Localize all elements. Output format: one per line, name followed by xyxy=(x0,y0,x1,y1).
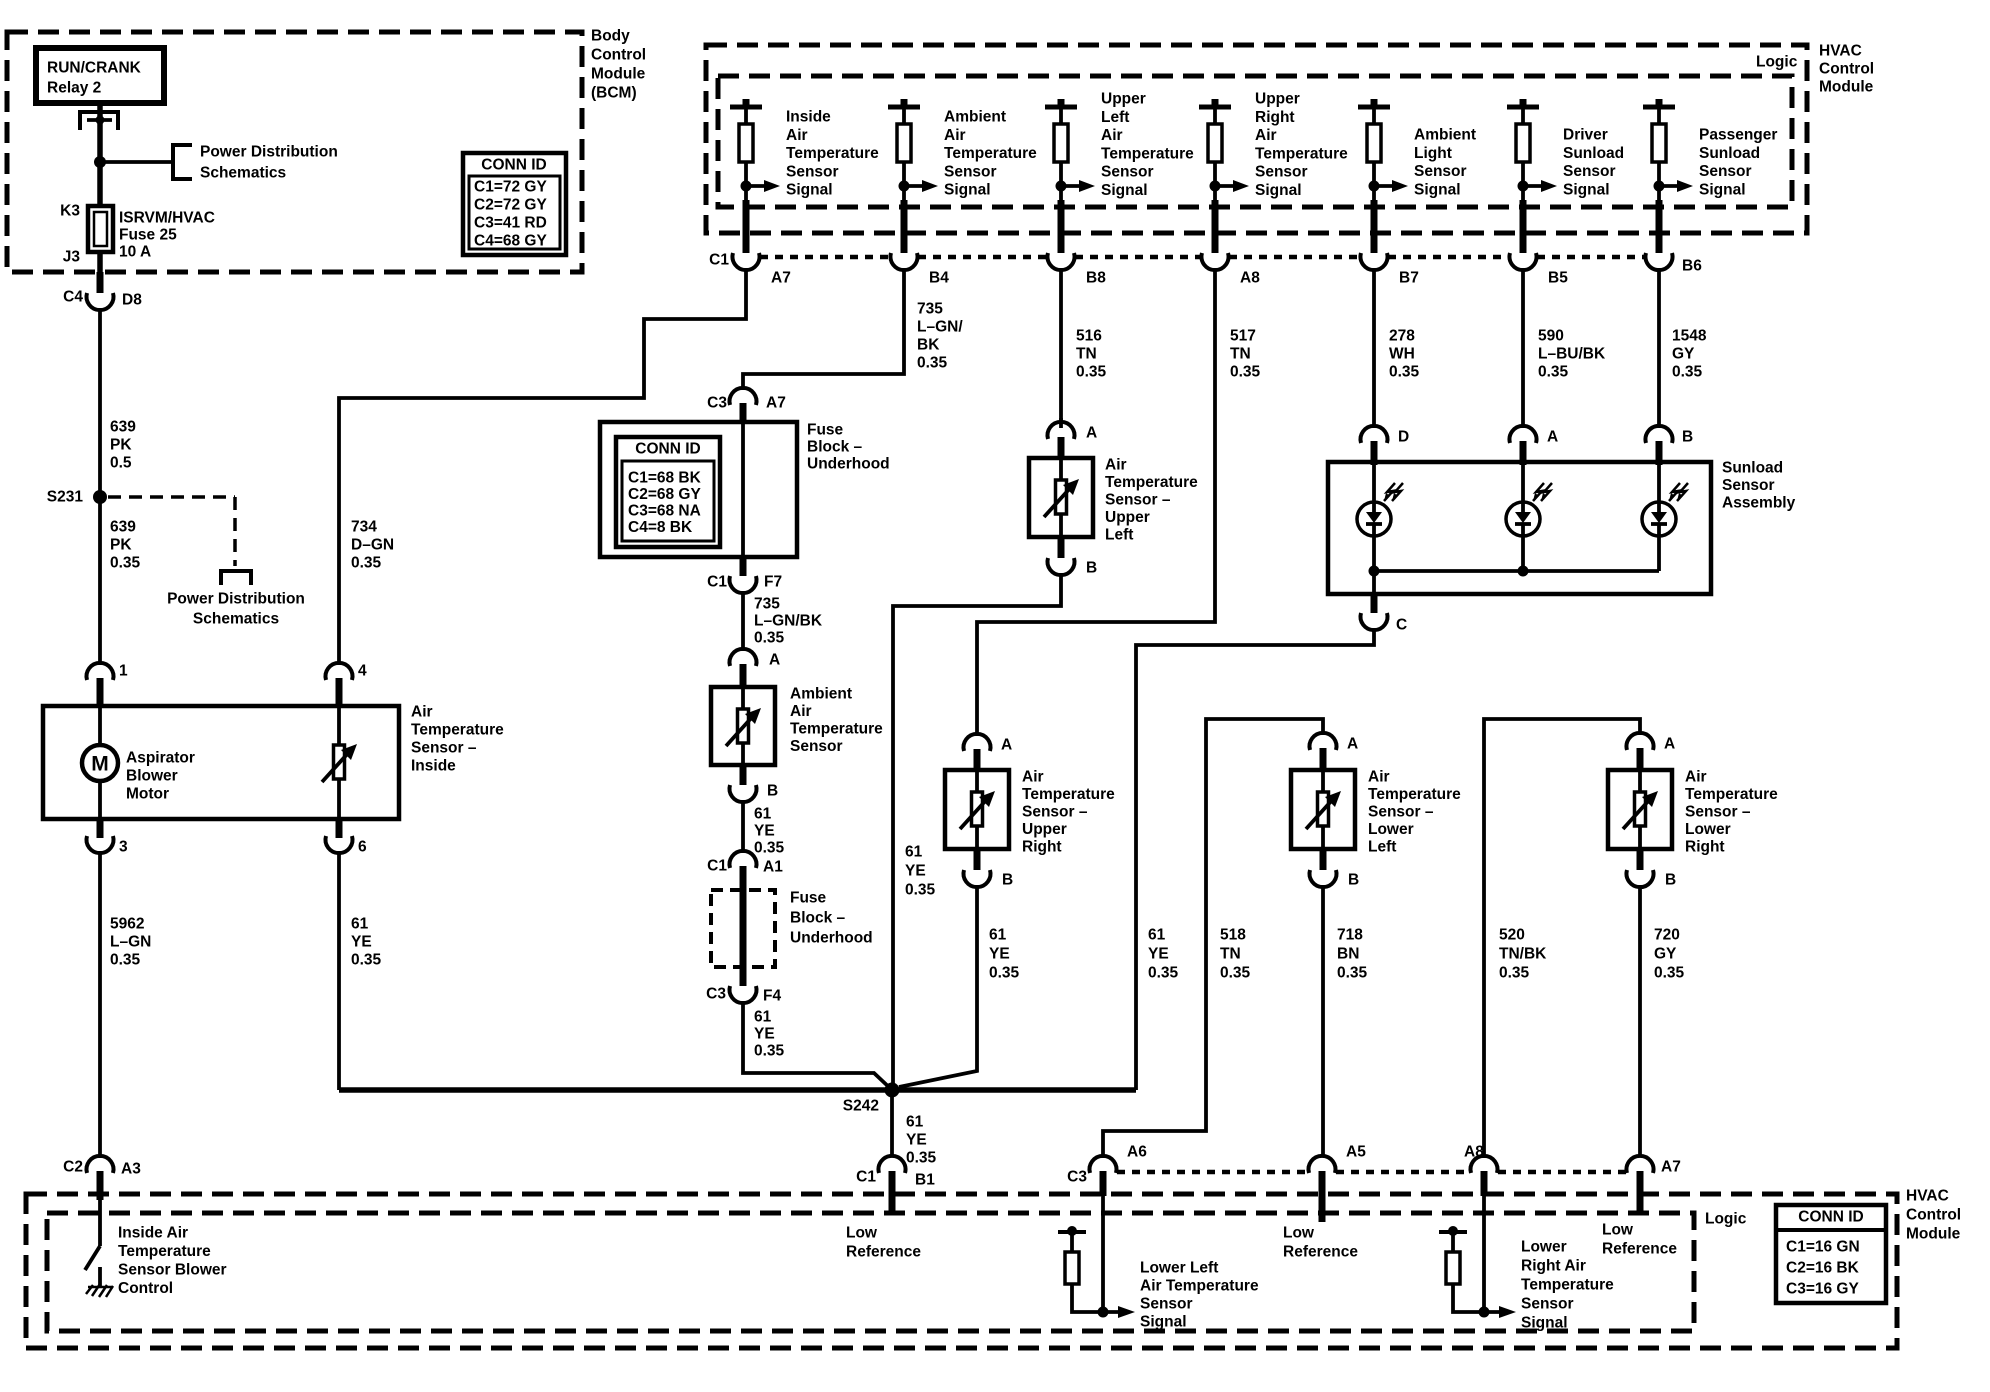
svg-text:0.35: 0.35 xyxy=(905,882,936,899)
svg-text:Light: Light xyxy=(1414,145,1452,162)
connector pin A7 (HVAC C1) xyxy=(733,253,760,270)
svg-text:1: 1 xyxy=(119,663,128,680)
Air Temperature Sensor - Lower Right box xyxy=(1608,769,1778,856)
svg-text:Sensor Blower: Sensor Blower xyxy=(118,1262,227,1279)
connector B (sunload sensor assembly) xyxy=(1645,426,1672,443)
svg-text:C1=72 GY: C1=72 GY xyxy=(474,179,547,196)
svg-text:Aspirator: Aspirator xyxy=(126,750,195,767)
svg-text:0.35: 0.35 xyxy=(351,952,382,969)
wire 61 YE S242 to C1/B1 xyxy=(892,1090,937,1167)
svg-text:Sensor: Sensor xyxy=(786,163,839,180)
connector A8 (HVAC control module) xyxy=(1471,1156,1498,1173)
svg-text:Signal: Signal xyxy=(1101,182,1148,199)
svg-text:0.35: 0.35 xyxy=(351,555,382,572)
label Air Temperature Sensor - Inside xyxy=(411,704,504,775)
wire 639 PK 0.5 xyxy=(100,308,136,492)
svg-text:PK: PK xyxy=(110,537,132,554)
HVAC Control Module outer dashed box (bottom) xyxy=(26,1188,1961,1349)
svg-text:Lower Left: Lower Left xyxy=(1140,1260,1218,1277)
svg-text:518: 518 xyxy=(1220,927,1246,944)
pin label D xyxy=(1398,429,1409,446)
pin label B8 xyxy=(1086,270,1106,287)
svg-text:C2=68 GY: C2=68 GY xyxy=(628,486,701,503)
stub C2/A3 into module xyxy=(97,1171,104,1200)
svg-text:Sensor –: Sensor – xyxy=(1022,804,1088,821)
svg-text:C2: C2 xyxy=(63,1159,83,1176)
connector C3/F4 (fuse block underhood) xyxy=(730,986,757,1003)
svg-text:B1: B1 xyxy=(915,1172,935,1189)
svg-text:0.35: 0.35 xyxy=(1654,965,1685,982)
svg-text:0.5: 0.5 xyxy=(110,455,132,472)
wire 278 WH from B7 to sunload D xyxy=(1372,268,1376,428)
svg-text:Temperature: Temperature xyxy=(1521,1277,1614,1294)
motor M symbol xyxy=(82,706,118,819)
svg-text:Upper: Upper xyxy=(1255,91,1300,108)
pin label B (lower left) xyxy=(1348,872,1359,889)
svg-text:Control: Control xyxy=(118,1280,173,1297)
wire 61 YE upper-right B down to S242 xyxy=(899,885,1020,1087)
pin labels C1 A1 xyxy=(707,858,783,876)
wire A6 to sense junction xyxy=(1100,1171,1107,1312)
stub A5 into module (low reference) xyxy=(1319,1171,1326,1222)
pin label A (sunload) xyxy=(1547,429,1558,446)
svg-text:3: 3 xyxy=(119,839,128,856)
Fuse Block - Underhood dashed box xyxy=(711,890,873,968)
connector B (air temperature sensor upper left) xyxy=(1047,558,1074,575)
wires to photodiodes xyxy=(1374,462,1659,502)
pin labels C4 D8 xyxy=(63,289,142,309)
svg-text:Air: Air xyxy=(790,703,812,720)
svg-text:Temperature: Temperature xyxy=(118,1243,211,1260)
connector C1/F7 (fuse block underhood) xyxy=(730,576,757,593)
pin 3 stub xyxy=(97,819,104,838)
stub B1 into module (low reference) xyxy=(889,1171,896,1214)
connector A (ambient air temperature sensor) xyxy=(730,649,757,666)
connector B (air temperature sensor upper right) xyxy=(964,870,991,887)
svg-text:Power Distribution: Power Distribution xyxy=(167,591,305,608)
svg-text:D8: D8 xyxy=(122,292,142,309)
svg-text:Reference: Reference xyxy=(1602,1241,1677,1258)
svg-text:WH: WH xyxy=(1389,346,1415,363)
svg-text:Upper: Upper xyxy=(1105,509,1150,526)
label Low Reference (A5) xyxy=(1283,1225,1358,1261)
svg-text:C3: C3 xyxy=(706,986,726,1003)
wire through dashed fuse block xyxy=(740,866,747,986)
svg-text:Signal: Signal xyxy=(1255,182,1302,199)
svg-text:A: A xyxy=(769,652,780,669)
svg-text:Air: Air xyxy=(1022,769,1044,786)
svg-text:F7: F7 xyxy=(764,574,782,591)
svg-text:C1=16 GN: C1=16 GN xyxy=(1786,1239,1860,1256)
svg-text:61: 61 xyxy=(1148,927,1166,944)
svg-text:Air: Air xyxy=(786,127,808,144)
ground (chassis) xyxy=(86,1284,113,1297)
sensor internal wires (upper right) xyxy=(975,770,979,849)
svg-text:B7: B7 xyxy=(1399,270,1419,287)
stub out of lower-right sensor xyxy=(1637,849,1644,870)
Air Temperature Sensor - Lower Left box xyxy=(1291,769,1461,856)
pull-up resistor (lower right signal) xyxy=(1439,1226,1479,1312)
pin labels C1 F7 xyxy=(707,574,782,591)
svg-text:Control: Control xyxy=(1906,1207,1961,1224)
pin label A (upper right) xyxy=(1001,737,1012,754)
splice S231 xyxy=(47,489,107,506)
svg-text:YE: YE xyxy=(989,946,1010,963)
svg-text:C3: C3 xyxy=(1067,1169,1087,1186)
svg-text:A6: A6 xyxy=(1127,1144,1147,1161)
stub out of lower-left sensor xyxy=(1320,849,1327,870)
wire 61 YE sunload C to S242 bus xyxy=(1136,628,1374,1090)
svg-text:10 A: 10 A xyxy=(119,244,151,261)
pin label B (upper left) xyxy=(1086,560,1097,577)
svg-text:Ambient: Ambient xyxy=(790,686,852,703)
stub out of sunload box to C xyxy=(1372,571,1376,613)
svg-text:BN: BN xyxy=(1337,946,1359,963)
svg-text:Temperature: Temperature xyxy=(1255,145,1348,162)
svg-text:C1: C1 xyxy=(707,858,727,875)
connector pin B7 (HVAC C1) xyxy=(1361,253,1388,270)
svg-text:A7: A7 xyxy=(766,395,786,412)
pin label B (sunload) xyxy=(1682,429,1693,446)
svg-text:Signal: Signal xyxy=(1414,181,1461,198)
svg-text:Right: Right xyxy=(1685,839,1725,856)
svg-text:A1: A1 xyxy=(763,859,783,876)
wire to Power Distribution bracket xyxy=(100,160,173,164)
pin label B6 xyxy=(1682,258,1702,275)
svg-text:B: B xyxy=(1682,429,1693,446)
svg-text:D–GN: D–GN xyxy=(351,537,394,554)
svg-text:Upper: Upper xyxy=(1022,821,1067,838)
wire junction to fuse xyxy=(97,162,103,206)
pin label B4 xyxy=(929,270,949,287)
wire 720 GY lower-right B down to A7 xyxy=(1640,885,1685,1157)
pin label C xyxy=(1396,617,1407,634)
stub A7 into module (low reference) xyxy=(1637,1171,1644,1214)
wire 517 TN label xyxy=(1230,328,1261,381)
svg-text:Sensor: Sensor xyxy=(1140,1296,1193,1313)
connector B (air temperature sensor lower right) xyxy=(1627,870,1654,887)
svg-text:CONN ID: CONN ID xyxy=(481,157,546,174)
svg-text:Sensor –: Sensor – xyxy=(1685,804,1751,821)
wire 517 TN from A8 to upper-right sensor xyxy=(977,268,1215,736)
svg-text:Sensor: Sensor xyxy=(1563,163,1616,180)
svg-text:A: A xyxy=(1347,736,1358,753)
svg-text:Module: Module xyxy=(1906,1226,1961,1243)
svg-text:TN: TN xyxy=(1076,346,1097,363)
pin labels C2 A3 xyxy=(63,1159,141,1178)
svg-text:Sunload: Sunload xyxy=(1699,145,1760,162)
svg-text:C: C xyxy=(1396,617,1407,634)
wire fuse to connector C4 xyxy=(97,252,103,293)
svg-text:520: 520 xyxy=(1499,927,1525,944)
wire 520 TN/BK from HVAC A8 up to lower-right sensor xyxy=(1484,719,1640,1158)
svg-text:Temperature: Temperature xyxy=(790,721,883,738)
sensor signal input circuit B7 xyxy=(1358,99,1476,253)
svg-text:639: 639 xyxy=(110,419,136,436)
svg-text:Temperature: Temperature xyxy=(1685,786,1778,803)
connector pin B6 (HVAC C1) xyxy=(1646,253,1673,270)
svg-text:Signal: Signal xyxy=(1699,181,1746,198)
svg-text:S242: S242 xyxy=(843,1098,879,1115)
svg-text:61: 61 xyxy=(906,1114,924,1131)
svg-text:Temperature: Temperature xyxy=(944,145,1037,162)
pin label A5 xyxy=(1346,1144,1366,1161)
svg-text:L–BU/BK: L–BU/BK xyxy=(1538,346,1606,363)
pin 1 stub xyxy=(97,678,104,706)
connector A5 (HVAC control module) xyxy=(1309,1156,1336,1173)
svg-text:735: 735 xyxy=(754,596,780,613)
thermistor symbol (lower left sensor) xyxy=(1306,791,1341,829)
svg-text:A8: A8 xyxy=(1464,1144,1484,1161)
connector A (sunload sensor assembly) xyxy=(1510,426,1537,443)
sensor signal input circuit A8 xyxy=(1199,91,1348,254)
relay contact symbol xyxy=(80,112,118,130)
connector pin B8 (HVAC C1) xyxy=(1048,253,1075,270)
connector pin 4 of blower motor xyxy=(326,663,353,680)
stub into upper-left sensor xyxy=(1058,437,1065,458)
svg-text:C3=41 RD: C3=41 RD xyxy=(474,215,547,232)
svg-text:C1: C1 xyxy=(856,1169,876,1186)
connector D (sunload sensor assembly) xyxy=(1361,426,1388,443)
label Lower Left Air Temperature Sensor Signal xyxy=(1140,1260,1259,1331)
svg-text:Sensor: Sensor xyxy=(944,163,997,180)
svg-text:Fuse: Fuse xyxy=(790,890,827,907)
Logic dashed box (bottom) xyxy=(47,1211,1747,1332)
pin label 4 xyxy=(358,663,367,680)
svg-text:0.35: 0.35 xyxy=(1220,965,1251,982)
thermistor symbol (ambient air temperature sensor) xyxy=(726,708,761,746)
dashed branch to Power Distribution Schematics xyxy=(108,497,305,628)
connector label C1 (top module) xyxy=(709,252,729,269)
svg-text:720: 720 xyxy=(1654,927,1680,944)
wire 516 TN label xyxy=(1076,328,1107,381)
CONN ID table (BCM) xyxy=(463,153,566,255)
svg-text:YE: YE xyxy=(754,823,775,840)
svg-text:YE: YE xyxy=(905,863,926,880)
svg-text:Schematics: Schematics xyxy=(200,165,286,182)
svg-text:Temperature: Temperature xyxy=(1101,145,1194,162)
svg-text:0.35: 0.35 xyxy=(1672,364,1703,381)
svg-text:YE: YE xyxy=(351,934,372,951)
svg-text:Sensor: Sensor xyxy=(1521,1296,1574,1313)
thermistor symbol (upper right sensor) xyxy=(960,791,995,829)
wire 518 TN from HVAC C3/A6 up to lower-left sensor xyxy=(1103,719,1323,1158)
svg-text:Relay 2: Relay 2 xyxy=(47,80,101,97)
wire B4 to fuse block C3/A7 xyxy=(743,268,904,390)
wire A8 to sense junction xyxy=(1481,1171,1488,1312)
svg-text:Fuse 25: Fuse 25 xyxy=(119,227,177,244)
sensor signal input circuit B4 xyxy=(888,99,1037,253)
svg-text:A: A xyxy=(1086,425,1097,442)
svg-text:Fuse: Fuse xyxy=(807,422,844,439)
svg-text:Assembly: Assembly xyxy=(1722,495,1796,512)
svg-text:C1=68 BK: C1=68 BK xyxy=(628,470,702,487)
connector A (air temperature sensor upper right) xyxy=(964,734,991,751)
stub into lower-right sensor xyxy=(1637,748,1644,770)
wire through fuse block xyxy=(741,422,745,557)
internal common bus of sunload assembly xyxy=(1369,536,1660,577)
svg-text:Upper: Upper xyxy=(1101,91,1146,108)
svg-text:Underhood: Underhood xyxy=(790,930,873,947)
pin label A xyxy=(769,652,780,669)
svg-text:B: B xyxy=(767,783,778,800)
stub into lower-left sensor xyxy=(1320,748,1327,770)
svg-text:Air: Air xyxy=(1685,769,1707,786)
svg-text:Low: Low xyxy=(1602,1222,1634,1239)
svg-text:0.35: 0.35 xyxy=(1389,364,1420,381)
Aspirator Blower Motor box xyxy=(43,706,399,819)
svg-text:Sunload: Sunload xyxy=(1563,145,1624,162)
wire 5962 L-GN 0.35 xyxy=(100,851,151,1158)
photodiode (ambient light) xyxy=(1506,483,1552,536)
node junction to Power Distribution xyxy=(94,156,106,168)
svg-text:B: B xyxy=(1086,560,1097,577)
stub into ambient sensor xyxy=(740,664,747,687)
stub out of ambient sensor xyxy=(740,765,747,785)
svg-text:Temperature: Temperature xyxy=(786,145,879,162)
svg-text:Signal: Signal xyxy=(1521,1315,1568,1332)
relay RUN/CRANK Relay 2 xyxy=(36,48,164,103)
wire 735 L-GN/BK label (B4) xyxy=(917,301,963,372)
HVAC Control Module outer dashed box (top) xyxy=(706,43,1874,234)
connector pin 6 of blower motor xyxy=(326,836,353,853)
svg-text:RUN/CRANK: RUN/CRANK xyxy=(47,60,142,77)
dotted connector row (bottom module) xyxy=(1117,1170,1626,1175)
svg-text:Control: Control xyxy=(1819,61,1874,78)
svg-text:HVAC: HVAC xyxy=(1819,43,1862,60)
label Inside Air Temperature Sensor Blower Control xyxy=(118,1225,227,1298)
wire 516 TN from B8 to upper-left sensor xyxy=(1059,268,1063,428)
wire 61 YE 0.35 from pin 6 xyxy=(339,851,382,1090)
pin label A8 xyxy=(1240,270,1260,287)
svg-text:Air: Air xyxy=(1368,769,1390,786)
svg-text:TN: TN xyxy=(1220,946,1241,963)
pin label A8 (bottom) xyxy=(1464,1144,1484,1161)
wire 639 PK 0.35 xyxy=(100,497,141,665)
svg-text:C1: C1 xyxy=(709,252,729,269)
svg-text:TN: TN xyxy=(1230,346,1251,363)
sensor internal wires (upper left) xyxy=(1059,458,1063,537)
svg-text:C3: C3 xyxy=(707,395,727,412)
svg-text:YE: YE xyxy=(906,1132,927,1149)
connector C1/B1 (HVAC control module) xyxy=(879,1156,906,1173)
Air Temperature Sensor - Upper Right box xyxy=(945,769,1115,856)
svg-text:CONN ID: CONN ID xyxy=(635,441,700,458)
stubs into sunload box xyxy=(1374,441,1659,465)
svg-text:C3=16 GY: C3=16 GY xyxy=(1786,1281,1859,1298)
svg-text:Left: Left xyxy=(1105,527,1133,544)
svg-text:Sunload: Sunload xyxy=(1722,460,1783,477)
wire relay to junction xyxy=(97,103,103,163)
svg-text:CONN ID: CONN ID xyxy=(1798,1209,1863,1226)
label Low Reference (B1) xyxy=(846,1225,921,1261)
svg-text:Sensor –: Sensor – xyxy=(1368,804,1434,821)
svg-text:Signal: Signal xyxy=(1140,1314,1187,1331)
svg-text:A8: A8 xyxy=(1240,270,1260,287)
svg-text:ISRVM/HVAC: ISRVM/HVAC xyxy=(119,210,215,227)
connector pin A8 (HVAC C1) xyxy=(1202,253,1229,270)
wire 61 YE 0.35 (fuse block to S242) xyxy=(743,1001,891,1089)
svg-text:1548: 1548 xyxy=(1672,328,1707,345)
pin labels C3 A6 xyxy=(1067,1144,1147,1186)
connector C2/A3 (HVAC control module) xyxy=(87,1156,114,1173)
sensor internal wires (lower right) xyxy=(1638,770,1642,849)
svg-text:Sensor: Sensor xyxy=(790,738,843,755)
node + arrow lower left signal xyxy=(1098,1306,1136,1318)
svg-text:6: 6 xyxy=(358,839,367,856)
svg-text:A3: A3 xyxy=(121,1161,141,1178)
Fuse Block - Underhood box xyxy=(600,422,890,558)
svg-text:S231: S231 xyxy=(47,489,84,506)
svg-text:0.35: 0.35 xyxy=(1538,364,1569,381)
pin label A (lower right) xyxy=(1664,736,1675,753)
node + arrow lower right signal xyxy=(1479,1306,1517,1318)
pin label 1 xyxy=(119,663,128,680)
svg-text:Lower: Lower xyxy=(1685,821,1731,838)
connector C1/A1 (fuse block underhood) xyxy=(730,851,757,868)
svg-text:B: B xyxy=(1665,872,1676,889)
svg-text:735: 735 xyxy=(917,301,943,318)
wire 278 WH label xyxy=(1389,328,1420,381)
svg-text:Sensor: Sensor xyxy=(1255,164,1308,181)
connector C3/A7 (fuse block underhood) xyxy=(730,388,757,405)
svg-text:61: 61 xyxy=(905,844,923,861)
svg-text:Signal: Signal xyxy=(944,182,991,199)
svg-text:Sensor: Sensor xyxy=(1101,164,1154,181)
air temperature sensor - inside (variable resistor) xyxy=(337,706,341,819)
svg-text:Sensor –: Sensor – xyxy=(411,740,477,757)
svg-text:0.35: 0.35 xyxy=(1499,965,1530,982)
pin label B7 xyxy=(1399,270,1419,287)
svg-text:Reference: Reference xyxy=(846,1244,921,1261)
pull-up resistor (lower left signal) xyxy=(1058,1226,1098,1312)
connector C3/A6 (HVAC control module) xyxy=(1090,1156,1117,1173)
svg-text:0.35: 0.35 xyxy=(754,840,785,857)
svg-text:C4: C4 xyxy=(63,289,83,306)
svg-text:Module: Module xyxy=(1819,79,1874,96)
connector B (ambient air temperature sensor) xyxy=(730,785,757,802)
svg-text:HVAC: HVAC xyxy=(1906,1188,1949,1205)
Sunload Sensor Assembly box xyxy=(1328,460,1796,595)
low reference bus wire 61 YE xyxy=(339,1087,1136,1093)
connector pin B4 (HVAC C1) xyxy=(891,253,918,270)
connector A (air temperature sensor lower right) xyxy=(1627,733,1654,750)
svg-text:Sensor: Sensor xyxy=(1722,477,1775,494)
svg-text:0.35: 0.35 xyxy=(1076,364,1107,381)
svg-text:Logic: Logic xyxy=(1756,54,1798,71)
Air Temperature Sensor - Upper Left box xyxy=(1029,457,1198,544)
svg-text:C4=68 GY: C4=68 GY xyxy=(474,233,547,250)
svg-text:Body: Body xyxy=(591,28,630,45)
svg-text:BK: BK xyxy=(917,337,940,354)
svg-text:L–GN/: L–GN/ xyxy=(917,319,963,336)
connector C (sunload sensor assembly) xyxy=(1361,613,1388,630)
svg-text:A: A xyxy=(1547,429,1558,446)
svg-text:Module: Module xyxy=(591,66,646,83)
svg-text:C1: C1 xyxy=(707,574,727,591)
svg-text:Left: Left xyxy=(1101,109,1129,126)
svg-text:61: 61 xyxy=(754,1009,772,1026)
wire 718 BN lower-left B down to A5 xyxy=(1323,885,1368,1157)
svg-text:M: M xyxy=(91,753,109,776)
thermistor symbol (lower right sensor) xyxy=(1623,791,1658,829)
stub fuse block to C1/F7 xyxy=(740,557,747,576)
pin label A7 xyxy=(771,270,791,287)
svg-text:0.35: 0.35 xyxy=(917,355,948,372)
svg-text:J3: J3 xyxy=(63,249,81,266)
pin labels C3 F4 xyxy=(706,986,781,1005)
svg-text:Underhood: Underhood xyxy=(807,456,890,473)
